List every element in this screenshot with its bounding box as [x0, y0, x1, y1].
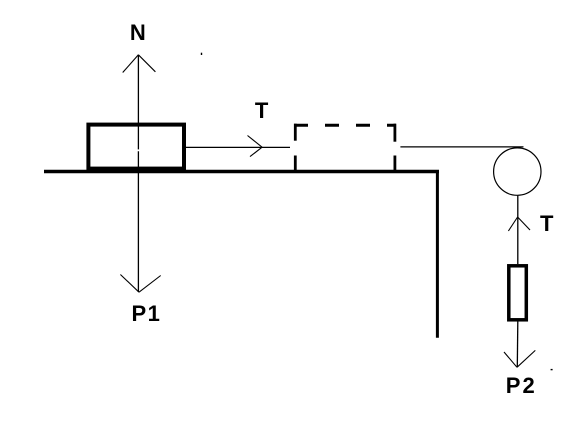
arrowhead N (up): [123, 55, 156, 73]
table edge vertical line: [436, 170, 439, 338]
hanging weight: [509, 266, 527, 320]
force line N/P1 (vertical shaft through block): [137, 55, 139, 292]
dashed ghost block: [294, 124, 396, 171]
label T (horizontal tension): [255, 98, 269, 123]
block on table: [88, 125, 184, 169]
label P2: [506, 373, 537, 398]
label T (vertical tension): [540, 211, 554, 236]
pulley: [494, 148, 541, 195]
rope pulley to weight: [517, 196, 519, 264]
rope weight to P2 arrow: [516, 322, 519, 368]
label P1: [132, 301, 162, 326]
svg-text:P2: P2: [506, 373, 537, 398]
svg-text:P1: P1: [132, 301, 162, 326]
rope from dashed box to pulley: [400, 146, 523, 148]
arrowhead T (right): [248, 136, 263, 157]
rope from block to dashed box: [186, 146, 291, 148]
label N: [130, 20, 146, 45]
stray dot near P2: [551, 369, 553, 370]
stray dot near N: [201, 53, 202, 55]
svg-text:T: T: [255, 98, 269, 123]
arrowhead P1 (down): [120, 275, 160, 293]
svg-text:T: T: [540, 211, 554, 236]
arrowhead P2 (down): [504, 350, 535, 367]
table top line: [44, 170, 439, 174]
arrowhead T (up, right side): [508, 217, 530, 231]
svg-text:N: N: [130, 20, 146, 45]
